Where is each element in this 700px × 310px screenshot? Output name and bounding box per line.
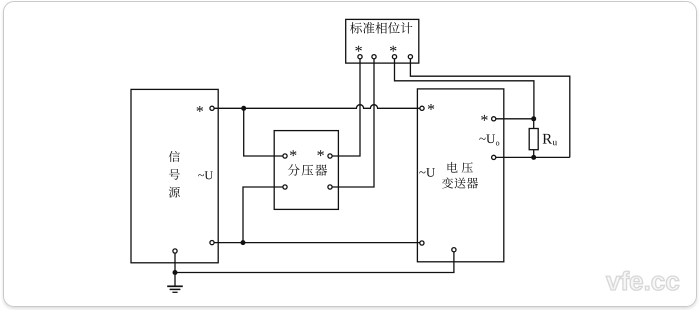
- wire: divider upper-right terminal up to phase meter pin 1: [330, 57, 360, 156]
- resistor Ru body: [529, 129, 538, 150]
- ground symbol: [167, 286, 183, 292]
- divider right polarity mark: [317, 150, 323, 156]
- label: transmitter line 1 电压: [448, 162, 458, 173]
- transmitter lower-left terminal: [420, 241, 424, 245]
- divider lower-left terminal: [283, 185, 287, 189]
- box: standard phase meter: [346, 19, 419, 63]
- label: standard phase meter 标准相位计: [350, 22, 362, 34]
- wire: source ground terminal down to node J3: [174, 251, 176, 273]
- node J3 ground junction: [173, 270, 178, 275]
- label: transmitter line 2 变送器: [442, 177, 453, 188]
- wire: resistor Ru leads: [533, 119, 535, 158]
- wire: phase meter pin 4 to right rail down to node J5 level: [410, 57, 569, 158]
- phase meter pin 3: [392, 55, 396, 59]
- label: ~Uo transmitter output: [479, 138, 485, 140]
- source bottom terminal: [210, 241, 214, 245]
- box: voltage transmitter: [417, 89, 503, 262]
- node J5 junction Ru bottom: [531, 155, 536, 160]
- transmitter upper-right terminal: [492, 117, 496, 121]
- wire: transmitter upper-right terminal to node J4: [494, 118, 534, 120]
- wire: source bottom terminal to transmitter lower-left terminal: [212, 242, 422, 244]
- label: voltage divider 分压器: [288, 164, 300, 176]
- wire: ground stem: [174, 273, 176, 287]
- label: ~U source: [198, 174, 204, 176]
- transmitter input polarity mark: [428, 104, 434, 110]
- transmitter mid-right terminal: [492, 155, 496, 159]
- divider upper-right terminal: [328, 154, 332, 158]
- wire: node J1 down to divider upper-left terminal: [244, 108, 285, 156]
- wire: phase meter pin 3 to node J4: [395, 57, 534, 119]
- phase meter pin 2: [372, 55, 376, 59]
- transmitter output polarity mark: [481, 115, 487, 121]
- box: signal source: [131, 89, 218, 262]
- phase meter pin 1 polarity mark: [355, 46, 361, 52]
- source ground terminal: [173, 249, 177, 253]
- transmitter top-left terminal: [420, 106, 424, 110]
- wire: node J2 up to divider lower-left terminal: [243, 187, 285, 243]
- phase meter pin 1: [358, 55, 362, 59]
- wire: source top terminal to transmitter top-left terminal with two crossover hops: [212, 105, 422, 109]
- divider lower-right terminal: [328, 185, 332, 189]
- source top terminal: [210, 106, 214, 110]
- label: Ru resistor: [543, 134, 552, 144]
- node J2 junction: [241, 240, 246, 245]
- label: signal source 信号源: [169, 151, 180, 162]
- wire: divider lower-right terminal up to phase meter pin 2: [330, 57, 374, 187]
- label: ~U transmitter: [419, 171, 425, 173]
- wire: node J3 to transmitter bottom terminal: [175, 250, 454, 273]
- divider left polarity mark: [290, 150, 296, 156]
- box: voltage divider: [274, 131, 338, 210]
- phase meter pin 4: [408, 55, 412, 59]
- node J1 junction: [241, 106, 246, 111]
- transmitter bottom terminal: [452, 248, 456, 252]
- wire: transmitter mid-right terminal through node J5 to right rail: [494, 156, 570, 158]
- source polarity mark: [197, 106, 203, 112]
- watermark vfe.cc: [606, 271, 679, 290]
- phase meter pin 3 polarity mark: [390, 46, 396, 52]
- node J4 junction Ru top: [531, 116, 536, 121]
- divider upper-left terminal: [283, 154, 287, 158]
